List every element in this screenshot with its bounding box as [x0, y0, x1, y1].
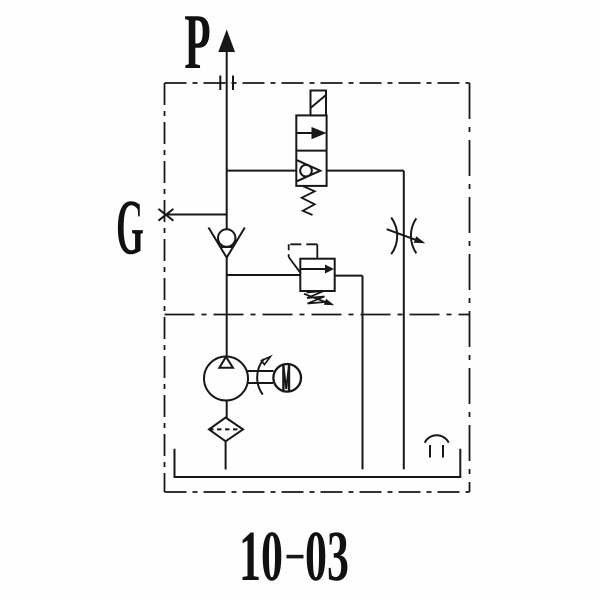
wire: filter to tank — [225, 441, 227, 469]
svg-text:03: 03 — [305, 516, 349, 596]
check valve — [209, 228, 245, 258]
svg-text:G: G — [116, 184, 144, 271]
tank — [175, 449, 461, 477]
port G label — [116, 184, 144, 271]
filter F1 — [209, 418, 243, 442]
tank separator dash-dot line — [165, 314, 470, 316]
boundary crossing tick right — [232, 76, 234, 91]
wire: G port line — [165, 214, 227, 216]
solenoid actuator box — [311, 91, 327, 116]
svg-text:10: 10 — [239, 516, 283, 596]
wire: check valve to pump — [226, 258, 228, 357]
relief valve internal arrow — [300, 265, 334, 274]
motor shaft lines — [247, 371, 274, 383]
wire: solenoid valve to throttle drop — [327, 170, 404, 172]
wire: relief valve inlet — [227, 274, 301, 276]
relief valve adjustable spring — [304, 291, 334, 305]
boundary crossing tick left — [219, 76, 221, 91]
solenoid valve open-position arrow — [296, 127, 326, 139]
svg-text:P: P — [184, 0, 210, 86]
breather — [425, 435, 449, 457]
wire: main pressure line (P to check valve) — [226, 51, 228, 229]
relief valve pilot line (dashed) — [289, 244, 318, 272]
solenoid valve U1 body — [296, 115, 326, 185]
solenoid valve return spring — [302, 186, 315, 215]
relief valve body — [300, 259, 334, 291]
rotation arrow — [257, 357, 270, 395]
wire: check valve branch to solenoid valve — [227, 170, 297, 172]
wire: relief valve outlet — [335, 275, 363, 277]
throttle valve — [387, 218, 426, 255]
pump P1 — [204, 357, 248, 401]
enclosure boundary right (dash-dot) — [469, 83, 471, 492]
enclosure boundary left (dash-dot) — [164, 83, 166, 492]
enclosure boundary bottom (dash-dot) — [165, 491, 470, 493]
wire: throttle line down to tank — [403, 171, 405, 470]
drawing number label 10-03 — [239, 516, 349, 596]
port P flow arrow — [218, 30, 235, 53]
enclosure boundary top (dash-dot) — [165, 82, 470, 84]
wire: relief return line to tank — [362, 276, 364, 470]
port P label — [184, 0, 210, 86]
motor M1 — [273, 364, 301, 393]
plugged port G (X symbol) — [158, 209, 173, 221]
solenoid valve closed-position check symbol — [297, 160, 320, 181]
wire: pump to filter — [226, 401, 228, 418]
